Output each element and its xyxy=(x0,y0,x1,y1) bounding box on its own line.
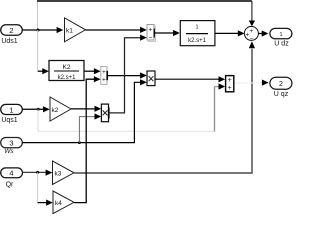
transfer function block K2/(k2.s+1) xyxy=(49,61,84,81)
svg-text:k3: k3 xyxy=(55,171,62,178)
svg-text:2: 2 xyxy=(9,26,13,35)
svg-text:k2.s+1: k2.s+1 xyxy=(58,75,77,81)
input port 1 Uqs1 xyxy=(1,104,23,123)
svg-text:+: + xyxy=(102,69,106,76)
sum block sum3 xyxy=(226,76,234,92)
transfer function block 1/(k2.s+1) xyxy=(180,21,215,46)
svg-text:1: 1 xyxy=(9,105,13,114)
output port 2 Uqz xyxy=(270,77,292,98)
product block mult2 xyxy=(147,71,155,86)
svg-text:+: + xyxy=(228,85,232,92)
svg-text:−: − xyxy=(148,34,152,41)
input port 4 Qr xyxy=(1,168,23,189)
svg-text:3: 3 xyxy=(9,139,13,148)
svg-text:k1: k1 xyxy=(66,28,73,35)
svg-text:k4: k4 xyxy=(55,200,62,207)
gain k3 xyxy=(53,161,75,185)
wire sum circle to output Udz xyxy=(259,30,269,36)
output port 1 Udz xyxy=(270,28,292,47)
sum block sum1 xyxy=(147,25,156,42)
input port 2 Uds1 xyxy=(1,25,23,45)
wire k3 to sum circle bottom (gray feedback) xyxy=(74,41,255,173)
svg-text:+: + xyxy=(250,28,254,35)
svg-text:+: + xyxy=(148,27,152,34)
wire Uqs1 branch to sum3 (light) xyxy=(38,83,225,131)
wire sum3 to output Uqz (very light) xyxy=(235,80,269,86)
svg-text:U dz: U dz xyxy=(274,40,289,47)
svg-text:Uds1: Uds1 xyxy=(1,38,17,45)
wire sum2 to product mult2 xyxy=(108,72,147,78)
svg-text:k2: k2 xyxy=(52,107,59,114)
wire Qr branch to gain k4 xyxy=(38,172,53,205)
svg-text:k2.s+1: k2.s+1 xyxy=(188,38,207,44)
svg-text:K2: K2 xyxy=(63,64,71,71)
wire sum1 to transfer fn xyxy=(155,30,180,36)
wire k4 to sum2 bottom input xyxy=(74,76,101,203)
product block mult1 xyxy=(101,104,108,122)
svg-text:−: − xyxy=(250,36,254,43)
wire mult2 to sum3 xyxy=(155,76,225,82)
svg-text:U qz: U qz xyxy=(274,91,289,98)
wire K2 filter to sum2 xyxy=(84,68,101,74)
svg-text:4: 4 xyxy=(9,169,13,178)
wire Ws branch to product mult1 xyxy=(79,113,101,142)
wire Uds1 to gain k1 xyxy=(23,27,64,33)
sum block sum2 xyxy=(101,67,107,85)
svg-text:+: + xyxy=(102,76,106,83)
wire mult1 to sum1 minus input xyxy=(109,35,147,113)
gain k1 xyxy=(65,18,86,42)
wire Qr to gain k3 xyxy=(23,170,53,176)
wire gain k1 to sum1 xyxy=(86,27,147,33)
svg-text:1: 1 xyxy=(279,32,282,38)
wire transfer fn to sum circle xyxy=(215,30,245,36)
gain k2 xyxy=(50,97,71,121)
input port 3 Ws xyxy=(1,138,23,155)
wire Uqs1 to gain k2 xyxy=(23,106,50,112)
wire Ws to product mult2 (elbow up) xyxy=(23,79,147,144)
svg-text:2: 2 xyxy=(279,81,283,88)
svg-text:Qr: Qr xyxy=(6,182,14,189)
gain k4 xyxy=(53,191,74,214)
svg-text:+: + xyxy=(228,77,232,84)
sum circle xyxy=(244,26,258,42)
svg-text:1: 1 xyxy=(195,24,198,30)
wire Uds1 branch down to K2 filter xyxy=(38,30,49,74)
svg-text:Uqs1: Uqs1 xyxy=(1,117,17,124)
wire gain k2 to product mult1 xyxy=(71,106,101,112)
wire top feedthrough Uds1 to sum circle xyxy=(37,1,255,30)
svg-text:Ws: Ws xyxy=(4,148,14,155)
